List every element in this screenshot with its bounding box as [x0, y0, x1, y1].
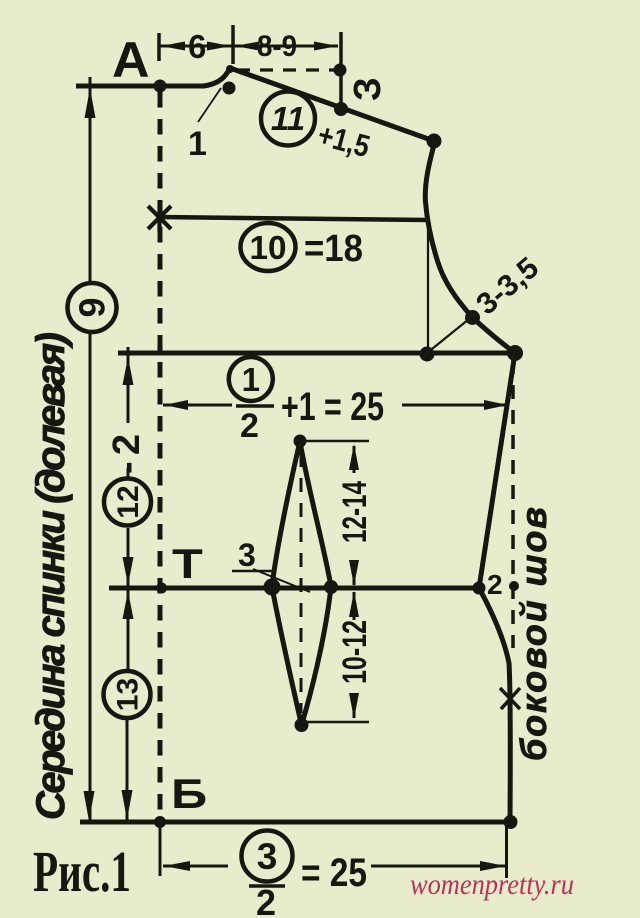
svg-text:Середина спинки (долевая): Середина спинки (долевая): [29, 332, 73, 820]
circled 10: [241, 223, 296, 271]
wire vertical from top tick to shoulder: [339, 32, 343, 108]
node chest right dot: [507, 345, 523, 361]
node dart left dot: [264, 579, 281, 596]
dart center dashed line: [300, 453, 303, 713]
svg-text:6: 6: [188, 28, 206, 65]
svg-text:+1 = 25: +1 = 25: [281, 385, 384, 429]
node neck peak: [226, 65, 234, 73]
svg-text:2: 2: [240, 407, 259, 445]
svg-text:3: 3: [238, 537, 256, 573]
svg-text:З: З: [347, 77, 389, 101]
wire dart dimension vertical 10-12: [353, 592, 356, 718]
arrow left 1/2 dimension: [164, 400, 188, 410]
tick middle of top dimension: [231, 25, 235, 64]
node dot point 1: [223, 82, 236, 95]
wire top dimension line: [159, 45, 338, 48]
arrow right bottom dimension: [480, 861, 506, 871]
arrow down 9 dimension: [84, 791, 95, 821]
svg-text:13: 13: [112, 678, 145, 711]
arrow up 12 dimension: [123, 357, 134, 385]
label T: [172, 540, 203, 587]
arrow up 9 dimension: [85, 88, 96, 118]
wire 12 dimension vertical: [127, 347, 130, 600]
node armhole bisector dot: [465, 310, 480, 325]
svg-text:-2: -2: [106, 434, 148, 474]
arrow up 12-14: [349, 444, 359, 470]
svg-text:10-12: 10-12: [336, 620, 374, 684]
wire dart dimension vertical 12-14: [353, 446, 356, 585]
X marker on side seam: [500, 688, 520, 709]
svg-text:А: А: [112, 32, 150, 88]
node dot on dashed side line: [509, 581, 519, 591]
svg-text:womenpretty.ru: womenpretty.ru: [410, 868, 574, 901]
circled 12: [104, 479, 151, 526]
arrow left for 8-9: [235, 42, 259, 51]
wire waist line: [109, 586, 479, 591]
arrow up 10-12: [349, 591, 359, 617]
node shoulder mid dot: [334, 102, 348, 116]
wire leader line to point 1: [198, 88, 221, 122]
wire 13 dimension vertical: [127, 591, 128, 820]
node shoulder end dot: [427, 134, 442, 149]
wire back neck curve: [203, 68, 231, 86]
node center bottom dot: [154, 816, 166, 828]
fraction bar 1/2: [236, 404, 274, 408]
wire bottom dimension extension left: [159, 824, 162, 876]
svg-text:12-14: 12-14: [336, 481, 374, 543]
arrow down 10-12: [349, 693, 359, 719]
svg-text:11: 11: [271, 100, 305, 137]
wire dashed center back line: [158, 92, 163, 821]
svg-text:3: 3: [257, 836, 278, 877]
svg-text:Б: Б: [171, 770, 207, 817]
svg-text:9: 9: [72, 297, 113, 317]
svg-text:8-9: 8-9: [257, 30, 297, 63]
dart dimension tick top: [303, 440, 369, 443]
node dart bottom dot: [295, 718, 309, 732]
wire dimension line 1/2+1=25: [163, 404, 509, 407]
wire side seam upper: [479, 353, 515, 588]
node dot on dashed extension: [334, 64, 347, 77]
arrow down 12-14: [349, 560, 359, 586]
label A: [112, 32, 150, 88]
arrow left for 6: [161, 42, 185, 51]
node center waist dot: [156, 583, 167, 594]
svg-text:боковой шов: боковой шов: [513, 507, 554, 761]
node dart top dot: [294, 435, 307, 448]
svg-text:2: 2: [256, 882, 276, 918]
wire bottom hem line: [80, 820, 512, 825]
circled 11: [261, 92, 315, 146]
wire dashed side vertical: [511, 360, 515, 648]
svg-text:=18: =18: [304, 228, 363, 270]
wire armhole curve: [425, 141, 515, 353]
arrow up 13 dimension: [123, 591, 134, 619]
arrow right for 6: [207, 42, 231, 51]
svg-text:1: 1: [188, 125, 207, 163]
arrow right 1/2 dimension: [484, 400, 508, 410]
wire chest line: [118, 351, 515, 356]
wire line 10 horizontal: [158, 217, 427, 220]
wire shoulder line: [230, 68, 434, 141]
wire leader from 3 to dart: [253, 569, 310, 592]
node dart right dot: [324, 580, 338, 594]
node point A junction: [154, 80, 167, 93]
tick left of 6 dimension: [157, 33, 161, 61]
wire thin bisector construction line: [427, 315, 474, 353]
svg-text:Рис.1: Рис.1: [33, 839, 131, 904]
svg-text:Т: Т: [172, 540, 203, 587]
circled 9: [68, 283, 117, 332]
arrow down 12 dimension: [123, 557, 134, 585]
wire bottom dimension line: [163, 865, 507, 868]
wire dashed neck extension: [237, 68, 334, 71]
wire top horizontal line through A: [76, 84, 205, 89]
wire bottom dimension extension right: [505, 824, 508, 878]
circled 1: [229, 357, 273, 401]
arrow down 13 dimension: [122, 790, 133, 820]
wire side seam lower curve: [479, 588, 510, 822]
wire thin vertical construction line: [427, 215, 429, 352]
wire 9 dimension vertical line: [89, 77, 92, 821]
arrow left bottom dimension: [164, 861, 190, 871]
svg-text:= 25: = 25: [301, 851, 367, 895]
node armhole corner dot: [420, 347, 435, 362]
dart outline: [272, 441, 331, 725]
circled 13: [104, 671, 151, 718]
svg-text:12: 12: [112, 485, 145, 518]
X marker on line 10: [148, 203, 171, 232]
label B: [171, 770, 207, 817]
circled 3: [242, 831, 293, 882]
node waist right dot: [473, 582, 486, 595]
svg-text:10: 10: [250, 229, 287, 266]
svg-text:2: 2: [487, 569, 503, 600]
svg-text:1: 1: [242, 361, 260, 398]
node bottom right dot: [504, 815, 518, 829]
arrow right for 8-9: [314, 42, 338, 51]
dart dimension tick bottom: [302, 721, 369, 724]
fraction bar 3/2: [249, 884, 285, 888]
